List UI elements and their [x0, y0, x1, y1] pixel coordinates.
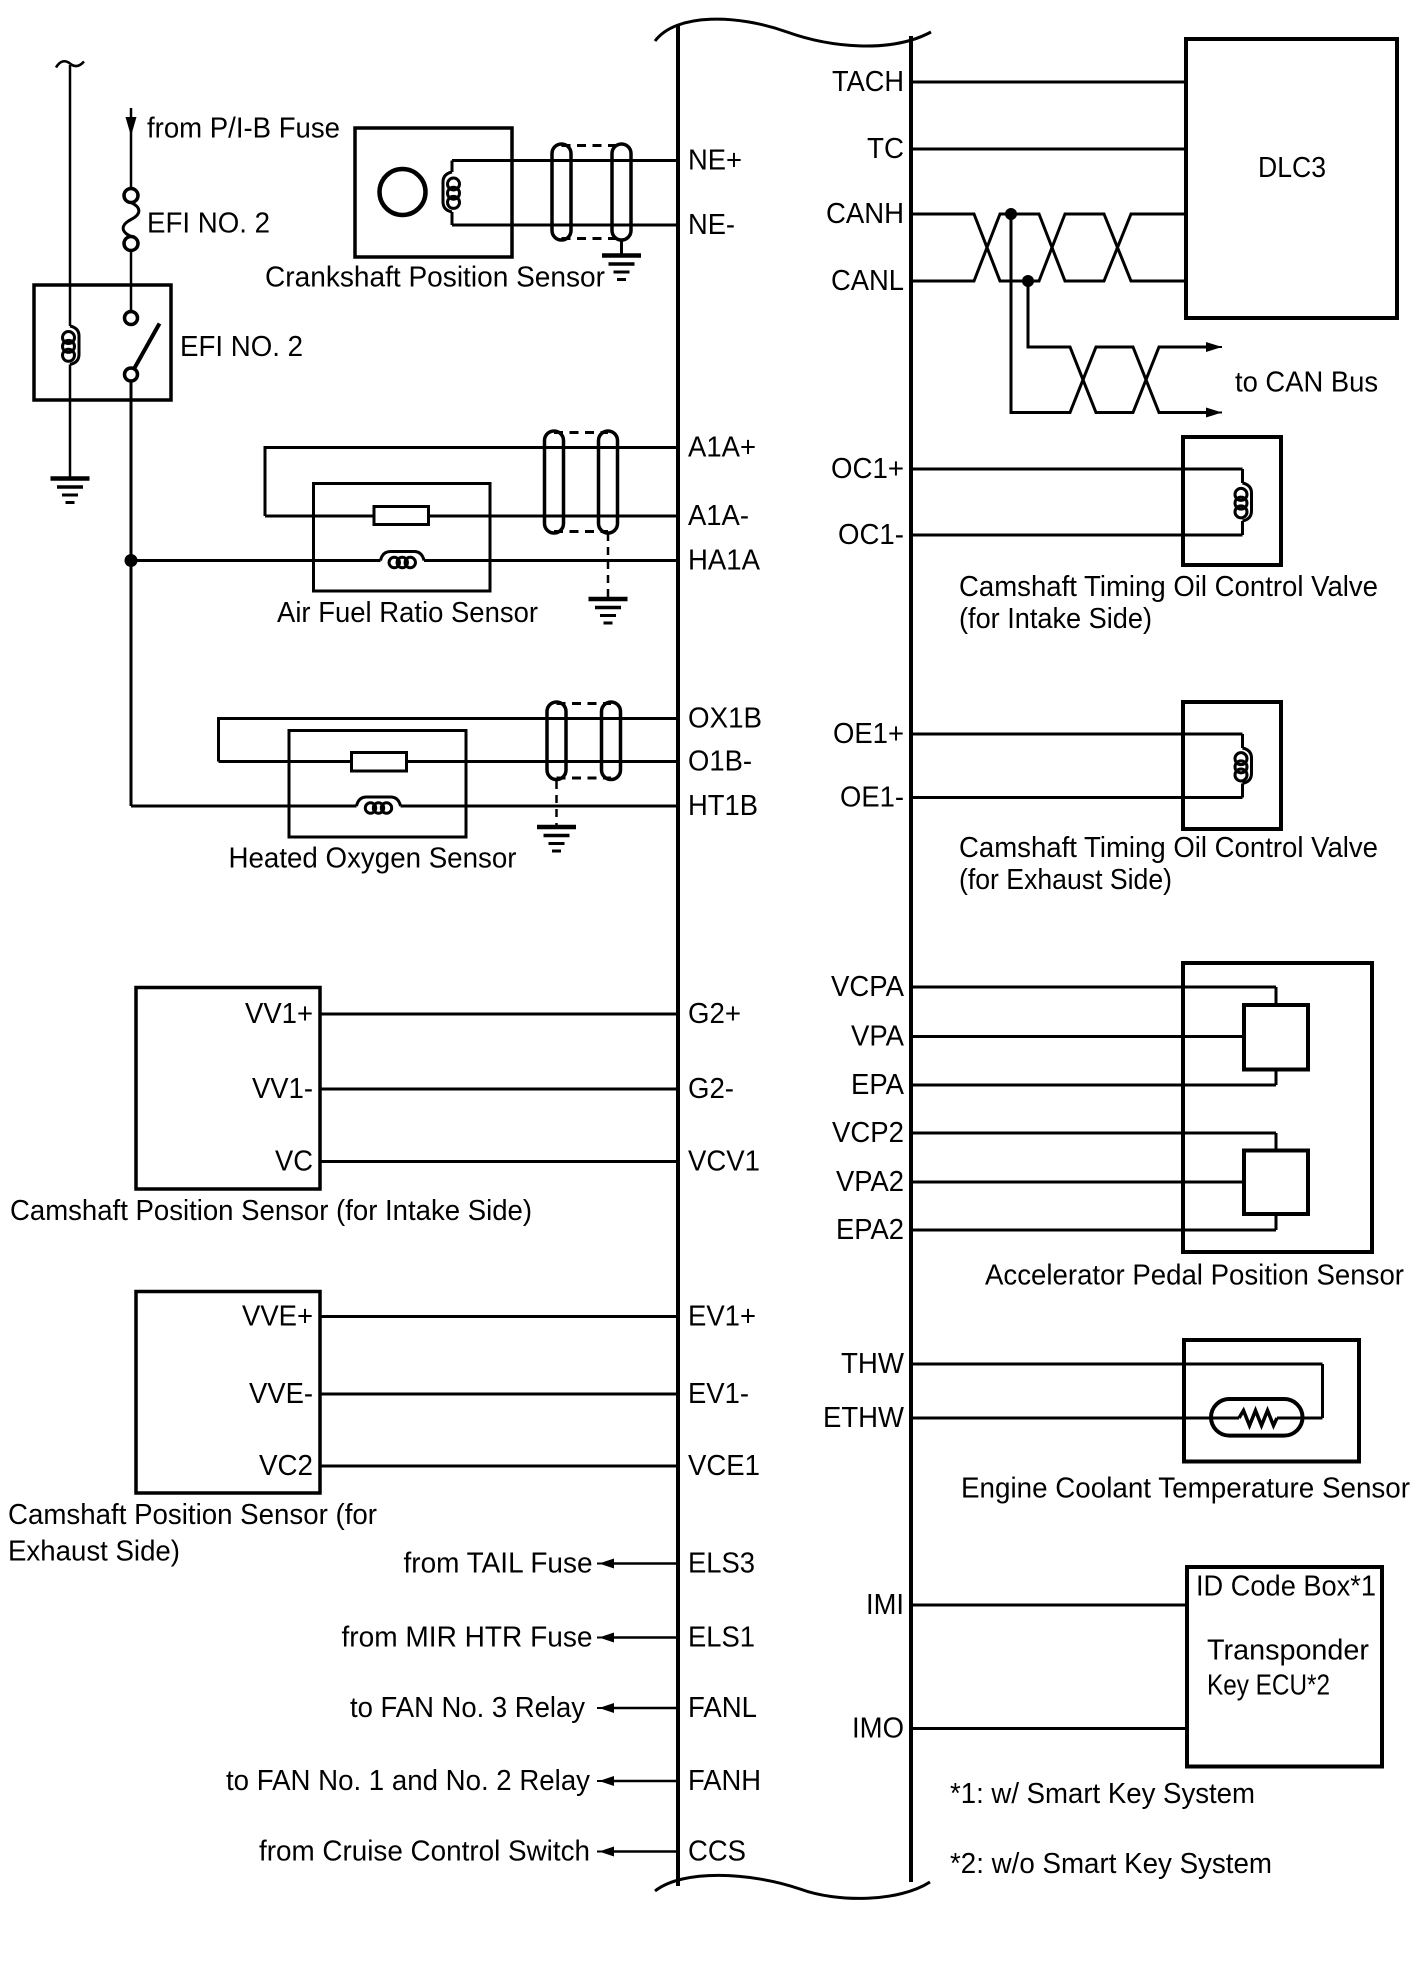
- svg-text:NE+: NE+: [688, 145, 742, 177]
- wire TACH: [911, 81, 1186, 84]
- svg-text:Camshaft Position Sensor (for: Camshaft Position Sensor (for: [8, 1499, 377, 1531]
- svg-text:A1A-: A1A-: [688, 500, 749, 532]
- svg-text:Transponder: Transponder: [1207, 1635, 1369, 1667]
- wire OE1-: [911, 796, 1243, 799]
- svg-text:EFI NO. 2: EFI NO. 2: [180, 331, 303, 363]
- ground (A1A shield): [589, 597, 628, 602]
- DLC3 box: [1186, 39, 1397, 318]
- svg-text:OC1+: OC1+: [831, 453, 904, 485]
- svg-text:Camshaft Timing Oil Control Va: Camshaft Timing Oil Control Valve: [959, 832, 1378, 864]
- wire to FAN No. 3 Relay with arrow: [606, 1707, 678, 1710]
- air fuel ratio sensor box: [314, 484, 491, 592]
- svg-text:OX1B: OX1B: [688, 703, 762, 735]
- wire from TAIL Fuse with arrow: [606, 1562, 678, 1565]
- sense cell resistor (AFR): [374, 507, 429, 525]
- shield drain dashed (A1A): [607, 533, 610, 597]
- svg-text:VC2: VC2: [259, 1450, 313, 1482]
- svg-text:Engine Coolant Temperature Sen: Engine Coolant Temperature Sensor: [961, 1473, 1410, 1505]
- APP sensor element 1 (square): [1244, 1005, 1308, 1070]
- svg-text:to FAN No. 1 and No. 2 Relay: to FAN No. 1 and No. 2 Relay: [226, 1765, 590, 1797]
- thermistor zigzag: [1239, 1411, 1277, 1426]
- camshaft position sensor (intake) box: [136, 988, 320, 1190]
- svg-text:ID Code Box*1: ID Code Box*1: [1196, 1571, 1376, 1603]
- svg-text:EV1+: EV1+: [688, 1301, 756, 1333]
- junction node CANH tap: [1005, 208, 1017, 220]
- svg-text:*1: w/ Smart Key System: *1: w/ Smart Key System: [950, 1778, 1255, 1810]
- svg-text:NE-: NE-: [688, 209, 735, 241]
- svg-text:VPA2: VPA2: [836, 1166, 904, 1198]
- svg-text:O1B-: O1B-: [688, 746, 752, 778]
- crankshaft position sensor box: [355, 128, 512, 257]
- wire relay coil to ground: [69, 365, 72, 478]
- heater coil (HO2S): [357, 797, 401, 806]
- svg-text:VVE-: VVE-: [249, 1378, 313, 1410]
- wire ETHW: [911, 1417, 1239, 1420]
- wire to FAN No. 1 and No. 2 Relay with arrow: [606, 1780, 678, 1783]
- svg-text:CCS: CCS: [688, 1836, 746, 1868]
- ECM top break (wavy edge): [655, 19, 931, 46]
- svg-text:VCPA: VCPA: [831, 971, 905, 1003]
- wire EPA2: [911, 1229, 1276, 1232]
- svg-text:from MIR HTR Fuse: from MIR HTR Fuse: [342, 1622, 593, 1654]
- svg-text:VVE+: VVE+: [242, 1301, 313, 1333]
- wire IMO: [911, 1727, 1187, 1730]
- wire CANH (twisted): [911, 214, 1186, 281]
- svg-text:from P/I-B Fuse: from P/I-B Fuse: [147, 113, 340, 145]
- shielded twisted pair (A1A): [545, 431, 564, 533]
- svg-text:from TAIL Fuse: from TAIL Fuse: [404, 1548, 593, 1580]
- wire VCP2: [911, 1132, 1276, 1135]
- wire from Cruise Control Switch with arrow: [606, 1850, 678, 1853]
- svg-text:FANL: FANL: [688, 1692, 757, 1724]
- svg-text:CANH: CANH: [826, 198, 904, 230]
- svg-text:Camshaft Timing Oil Control Va: Camshaft Timing Oil Control Valve: [959, 571, 1378, 603]
- svg-text:DLC3: DLC3: [1258, 152, 1326, 184]
- wire relay switch down to junction: [130, 381, 133, 561]
- svg-text:G2+: G2+: [688, 998, 741, 1030]
- svg-text:*2: w/o Smart Key System: *2: w/o Smart Key System: [950, 1848, 1272, 1880]
- shielded twisted pair (NE): [552, 144, 571, 240]
- svg-text:Accelerator Pedal Position Sen: Accelerator Pedal Position Sensor: [985, 1260, 1404, 1292]
- crankshaft sensor pickup coil: [451, 161, 454, 173]
- OCV (exhaust) solenoid coil: [1243, 748, 1252, 784]
- wire NE+: [452, 159, 678, 162]
- wire EV1-: [320, 1393, 678, 1396]
- ground (NE shield): [602, 253, 641, 258]
- ECM right edge: [909, 36, 913, 1882]
- wire G2+: [320, 1013, 678, 1016]
- svg-text:ETHW: ETHW: [823, 1402, 905, 1434]
- relay coil (EFI NO. 2 relay): [70, 326, 79, 365]
- svg-text:VV1+: VV1+: [245, 998, 313, 1030]
- svg-text:Heated Oxygen Sensor: Heated Oxygen Sensor: [229, 843, 517, 875]
- APP sensor element 2 (square): [1244, 1151, 1308, 1215]
- arrow to CAN bus upper: [1208, 346, 1222, 348]
- svg-text:Air Fuel Ratio Sensor: Air Fuel Ratio Sensor: [277, 597, 538, 629]
- relay switch contacts: [125, 312, 138, 325]
- fuse EFI NO. 2: [124, 189, 138, 203]
- svg-text:(for Exhaust Side): (for Exhaust Side): [959, 864, 1172, 896]
- svg-text:EFI NO. 2: EFI NO. 2: [147, 208, 270, 240]
- wire G2-: [320, 1088, 678, 1091]
- ground (OX1B shield): [537, 825, 576, 830]
- svg-text:VV1-: VV1-: [252, 1073, 313, 1105]
- wire fuse to relay switch: [130, 251, 133, 313]
- wire VPA2: [911, 1181, 1244, 1184]
- svg-text:TC: TC: [867, 133, 904, 165]
- svg-text:Key ECU*2: Key ECU*2: [1207, 1670, 1330, 1702]
- arrow to CAN bus lower: [1208, 412, 1222, 414]
- svg-text:EPA2: EPA2: [836, 1214, 904, 1246]
- svg-text:HA1A: HA1A: [688, 545, 761, 577]
- accelerator pedal position sensor box: [1183, 963, 1372, 1252]
- sense cell resistor (HO2S): [352, 753, 407, 772]
- ground (relay coil): [51, 476, 90, 481]
- wire OX1B loop vertical: [217, 717, 220, 762]
- svg-text:from Cruise Control Switch: from Cruise Control Switch: [259, 1836, 590, 1868]
- junction node HA1A: [125, 554, 138, 567]
- wire CANL (twisted): [911, 214, 1186, 281]
- wire A1A-: [265, 515, 678, 518]
- svg-text:VCP2: VCP2: [832, 1117, 904, 1149]
- crankshaft sensor rotor (circle): [380, 169, 426, 215]
- svg-text:Camshaft Position Sensor (for: Camshaft Position Sensor (for Intake Sid…: [10, 1195, 532, 1227]
- wire HT1B: [131, 805, 357, 808]
- svg-text:A1A+: A1A+: [688, 432, 756, 464]
- svg-text:VPA: VPA: [851, 1021, 905, 1053]
- wire VCPA: [911, 986, 1276, 989]
- wire EPA: [911, 1084, 1276, 1087]
- shielded twisted pair (OX1B): [547, 702, 566, 780]
- wire HA1A: [131, 559, 381, 562]
- wire junction down to HT1B corner: [130, 561, 133, 807]
- svg-text:OE1-: OE1-: [840, 782, 904, 814]
- svg-text:OC1-: OC1-: [838, 519, 904, 551]
- svg-text:(for Intake Side): (for Intake Side): [959, 603, 1152, 635]
- svg-text:HT1B: HT1B: [688, 790, 758, 822]
- thermistor body (stadium): [1211, 1399, 1303, 1436]
- svg-text:VCE1: VCE1: [688, 1450, 760, 1482]
- relay box EFI NO. 2: [34, 285, 171, 400]
- OCV (intake) solenoid coil: [1243, 483, 1252, 521]
- svg-text:to CAN Bus: to CAN Bus: [1235, 367, 1378, 399]
- wire O1B-: [219, 760, 679, 763]
- wire CANH tap to CAN bus (twisted): [1011, 214, 1208, 413]
- svg-text:THW: THW: [841, 1348, 905, 1380]
- wire A1A+ loop vertical: [264, 446, 267, 516]
- svg-text:IMI: IMI: [866, 1589, 904, 1621]
- wire OX1B: [219, 717, 679, 720]
- wire OC1-: [911, 534, 1243, 537]
- svg-text:OE1+: OE1+: [833, 718, 904, 750]
- heated oxygen sensor box: [289, 731, 466, 838]
- svg-text:ELS3: ELS3: [688, 1548, 755, 1580]
- shield drain dashed (OX1B): [555, 781, 558, 825]
- svg-text:CANL: CANL: [831, 265, 904, 297]
- svg-text:Crankshaft Position Sensor: Crankshaft Position Sensor: [265, 262, 605, 294]
- svg-text:G2-: G2-: [688, 1073, 734, 1105]
- wire A1A+: [265, 446, 678, 449]
- svg-text:TACH: TACH: [832, 66, 904, 98]
- svg-text:VC: VC: [275, 1146, 313, 1178]
- svg-text:Exhaust Side): Exhaust Side): [8, 1536, 180, 1568]
- wire VCE1: [320, 1465, 678, 1468]
- wire OE1+: [911, 733, 1243, 736]
- wire EV1+: [320, 1315, 678, 1318]
- svg-text:ELS1: ELS1: [688, 1622, 755, 1654]
- junction node CANL tap: [1022, 275, 1034, 287]
- wire OC1+: [911, 468, 1243, 471]
- camshaft position sensor (exhaust) box: [136, 1292, 320, 1494]
- wire battery feed with break symbol: [56, 61, 84, 67]
- wire IMI: [911, 1604, 1187, 1607]
- wire THW: [911, 1363, 1323, 1366]
- svg-text:FANH: FANH: [688, 1765, 761, 1797]
- camshaft timing OCV (intake) box: [1183, 437, 1281, 565]
- camshaft timing OCV (exhaust) box: [1183, 702, 1281, 829]
- svg-text:VCV1: VCV1: [688, 1146, 760, 1178]
- wire CANL tap to CAN bus (twisted): [1028, 281, 1208, 413]
- wire VCV1: [320, 1160, 678, 1163]
- arrow down from P/I-B Fuse: [130, 108, 133, 190]
- ECM bottom break (wavy edge): [655, 1875, 930, 1898]
- svg-text:IMO: IMO: [852, 1713, 904, 1745]
- engine coolant temperature sensor box: [1184, 1340, 1359, 1462]
- svg-text:EV1-: EV1-: [688, 1378, 749, 1410]
- ECM left edge: [676, 26, 680, 1886]
- shield drain to ground (NE): [620, 240, 623, 254]
- svg-text:to FAN No. 3 Relay: to FAN No. 3 Relay: [350, 1692, 585, 1724]
- ID code box / transponder key ECU box: [1187, 1567, 1382, 1767]
- wire NE-: [452, 224, 678, 227]
- wire TC: [911, 148, 1186, 151]
- wire VPA: [911, 1035, 1244, 1038]
- heater coil (AFR): [381, 552, 425, 561]
- wire from MIR HTR Fuse with arrow: [606, 1636, 678, 1639]
- svg-text:EPA: EPA: [851, 1069, 905, 1101]
